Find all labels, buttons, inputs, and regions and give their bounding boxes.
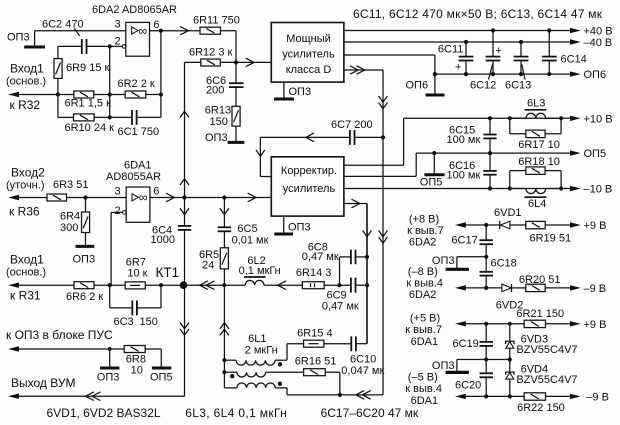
svg-text:BZV55C4V7: BZV55C4V7 — [516, 344, 577, 356]
wire corrector out to +10 rail — [344, 116, 571, 165]
resistor 6R18 10 — [510, 156, 561, 189]
svg-text:к выв.7: к выв.7 — [407, 225, 444, 237]
node D — [159, 31, 163, 118]
resistor 6R10 24k — [58, 114, 132, 134]
terminal ОП6 — [570, 69, 606, 81]
ground ОП3 under power amp — [274, 82, 311, 99]
svg-text:–9 В: –9 В — [586, 391, 609, 403]
svg-text:ОП3: ОП3 — [432, 255, 455, 267]
wire power amp feedback out — [344, 66, 388, 395]
resistor 6R15 4 — [297, 328, 351, 348]
zener 6VD4 BZV55C4V7 — [506, 360, 578, 399]
ground ОП5 right of 6R8 — [150, 368, 173, 384]
svg-text:6R19 51: 6R19 51 — [530, 233, 572, 245]
wire 6DA1 output — [150, 193, 271, 202]
svg-text:ОП3: ОП3 — [7, 32, 30, 44]
svg-text:–9 В: –9 В — [584, 283, 607, 295]
node input1 main — [6, 253, 46, 279]
pin 6 — [153, 19, 159, 31]
wire 6L1 top winding to 6R15 — [287, 344, 304, 361]
svg-text:6L1: 6L1 — [248, 333, 266, 345]
ground ОП3 left of 6R8 — [97, 368, 120, 384]
svg-text:Мощный: Мощный — [286, 33, 331, 45]
svg-text:1000: 1000 — [151, 234, 175, 246]
svg-text:6: 6 — [153, 186, 159, 198]
diode 6VD2 — [484, 284, 526, 312]
caption 6C11 6C12 470mk — [353, 7, 603, 21]
diode 6VD1 — [484, 207, 526, 229]
terminal -10V — [570, 184, 612, 196]
svg-text:6R11 750: 6R11 750 — [193, 15, 240, 27]
wire output 6DA2 — [150, 26, 201, 35]
ground ОП3 under corrector — [274, 216, 310, 234]
svg-text:6R3 51: 6R3 51 — [53, 179, 88, 191]
svg-text:6C2 470: 6C2 470 — [42, 19, 84, 31]
node C — [108, 44, 112, 117]
resistor 6R17 10 — [510, 118, 561, 151]
svg-text:6R6 2 к: 6R6 2 к — [66, 291, 103, 303]
inductor 6L3 — [510, 98, 561, 119]
terminal +40V — [570, 26, 613, 38]
node +8V terminal — [407, 214, 500, 249]
svg-text:(основ.): (основ.) — [6, 76, 46, 88]
resistor 6R12 3k — [185, 47, 272, 67]
capacitor 6C9 0.47mk — [322, 278, 369, 313]
svg-text:∞: ∞ — [138, 24, 147, 38]
svg-text:+9 В: +9 В — [584, 319, 607, 331]
label 6DA2 AD8065AR — [92, 4, 177, 16]
zener 6VD3 BZV55C4V7 — [506, 322, 578, 362]
svg-text:6VD1, 6VD2 BAS32L: 6VD1, 6VD2 BAS32L — [47, 406, 161, 420]
wire corrector to ОП5 rail — [344, 151, 571, 176]
svg-text:6DA2 AD8065AR: 6DA2 AD8065AR — [92, 4, 177, 16]
wire pin3 line — [35, 30, 126, 32]
capacitor 6C11 — [438, 42, 474, 74]
resistor 6R1 1.5k — [65, 91, 126, 110]
wire 6C7 to corrector input — [256, 137, 271, 176]
svg-text:6C19: 6C19 — [453, 338, 479, 350]
svg-text:BZV55C4V7: BZV55C4V7 — [516, 374, 577, 386]
svg-text:6R4: 6R4 — [60, 211, 80, 223]
terminal к R36 — [8, 195, 47, 219]
svg-text:6C1 750: 6C1 750 — [118, 126, 160, 138]
terminal -9V upper — [570, 283, 606, 295]
svg-text:КТ1: КТ1 — [156, 265, 180, 280]
resistor 6R6 2k — [66, 282, 125, 303]
resistor 6R5 24 — [199, 231, 228, 285]
terminal Выход ВУМ — [8, 392, 184, 401]
resistor 6R7 10k — [125, 257, 184, 289]
svg-text:6C20: 6C20 — [455, 380, 481, 392]
capacitor 6C15 100mk — [447, 118, 497, 153]
node к ОП3 в блоке ПУС — [6, 328, 113, 342]
svg-text:6: 6 — [153, 19, 159, 31]
svg-text:ОП3: ОП3 — [289, 86, 312, 98]
svg-text:ОП3: ОП3 — [73, 254, 96, 266]
svg-text:6С11, 6С12 470 мк×50 В;: 6С11, 6С12 470 мк×50 В; 6С13, 6С14 47 мк — [353, 7, 603, 21]
resistor 6R4 300 — [60, 198, 90, 247]
terminal к R31 — [8, 283, 74, 303]
svg-text:6R17 10: 6R17 10 — [518, 139, 560, 151]
svg-text:0,47 мк: 0,47 мк — [302, 251, 339, 263]
wire KT1 down to output line — [180, 285, 189, 396]
svg-text:к R31: к R31 — [10, 289, 41, 303]
svg-text:6С17–6С20 47 мк: 6С17–6С20 47 мк — [321, 406, 419, 420]
capacitor 6C10 0.047mk — [341, 336, 384, 377]
svg-text:–40 В: –40 В — [584, 37, 613, 49]
wire feedback vertical — [180, 62, 189, 197]
resistor 6R9 15k — [54, 46, 110, 94]
svg-text:усилитель: усилитель — [283, 183, 336, 195]
svg-text:Вход2: Вход2 — [11, 166, 45, 180]
wire ОП6 rail — [344, 55, 571, 95]
wire bottom return line — [287, 391, 383, 400]
svg-text:+10 В: +10 В — [584, 113, 613, 125]
svg-text:6C13: 6C13 — [505, 80, 531, 92]
node input1 — [6, 62, 46, 88]
resistor 6R11 750 — [193, 15, 240, 63]
terminal к R32 — [8, 92, 74, 112]
svg-text:–10 В: –10 В — [584, 184, 613, 196]
svg-text:к выв.4: к выв.4 — [405, 383, 442, 395]
svg-text:150: 150 — [210, 116, 228, 128]
svg-text:6VD1: 6VD1 — [494, 207, 522, 219]
svg-text:2: 2 — [115, 35, 121, 47]
svg-text:3: 3 — [115, 186, 121, 198]
resistor 6R22 150 — [517, 393, 570, 414]
svg-text:6DA1: 6DA1 — [411, 336, 439, 348]
resistor 6R19 51 — [526, 221, 571, 244]
wire KT1 vertical to 6L1 — [220, 285, 229, 388]
svg-text:Вход1: Вход1 — [10, 62, 44, 76]
terminal -40V — [570, 37, 612, 49]
wire +40V rail — [344, 28, 571, 32]
ground ОП3 mid supply — [432, 255, 488, 270]
node -8V terminal — [406, 266, 502, 301]
ground ОП3 top-left — [24, 31, 45, 47]
svg-text:6R12 3 к: 6R12 3 к — [189, 47, 233, 59]
svg-text:0,1 мкГн: 0,1 мкГн — [239, 265, 281, 277]
wire pin2 of 6DA1 to KT1 node — [111, 212, 123, 285]
svg-text:класса D: класса D — [286, 64, 332, 76]
svg-text:(основ.): (основ.) — [6, 267, 46, 279]
capacitor 6C12 — [470, 31, 502, 92]
svg-text:к ОП3 в блоке ПУС: к ОП3 в блоке ПУС — [6, 328, 113, 342]
node +5V terminal — [405, 313, 524, 349]
pin 2 — [115, 35, 121, 47]
svg-text:3: 3 — [115, 19, 121, 31]
ground ОП3 under 6R13 — [205, 132, 244, 144]
pin 6 of 6DA1 — [153, 186, 159, 198]
capacitor 6C20 — [455, 373, 493, 396]
svg-text:6DA1: 6DA1 — [124, 160, 152, 172]
caption 6C17-6C20 47mk — [321, 406, 419, 420]
svg-text:+40 В: +40 В — [584, 26, 613, 38]
svg-text:6DA2: 6DA2 — [409, 236, 437, 248]
capacitor 6C5 0.01mk — [218, 198, 269, 247]
op-amp 6DA2 — [122, 22, 149, 56]
terminal +10V — [570, 113, 613, 125]
wire corrector to -10 rail — [344, 186, 571, 190]
svg-text:6C18: 6C18 — [491, 258, 517, 270]
resistor 6R13 150 — [205, 87, 240, 141]
capacitor 6C19 — [453, 322, 494, 374]
node -5V terminal — [405, 371, 524, 407]
svg-text:ОП3: ОП3 — [432, 360, 455, 372]
resistor 6R8 10 — [124, 346, 161, 377]
node 6R6/6R7/pin2 — [108, 283, 112, 287]
svg-text:6C10: 6C10 — [350, 354, 376, 366]
svg-text:6R16 51: 6R16 51 — [295, 356, 337, 368]
svg-text:6C9: 6C9 — [327, 289, 347, 301]
pin 3 of 6DA1 — [115, 186, 121, 198]
svg-text:усилитель: усилитель — [282, 49, 335, 61]
svg-text:к R36: к R36 — [9, 205, 40, 219]
svg-text:6R22 150: 6R22 150 — [517, 402, 565, 414]
node ОП3 (top-left) — [7, 32, 30, 44]
block corrector amplifier — [271, 157, 344, 216]
node Выход ВУМ — [11, 376, 75, 390]
svg-text:к R32: к R32 — [10, 98, 41, 112]
svg-text:ОП5: ОП5 — [420, 177, 443, 189]
svg-text:6C3 150: 6C3 150 — [114, 316, 158, 328]
capacitor 6C18 — [480, 258, 517, 288]
svg-text:6R18 10: 6R18 10 — [518, 156, 560, 168]
svg-text:ОП6: ОП6 — [406, 80, 429, 92]
capacitor 6C14 — [542, 31, 587, 75]
capacitor 6C4 1000 — [151, 198, 192, 286]
node KT1 — [156, 265, 188, 289]
svg-text:(уточн.): (уточн.) — [6, 180, 44, 192]
svg-text:к выв.7: к выв.7 — [405, 324, 442, 336]
svg-text:6R14 3: 6R14 3 — [296, 267, 331, 279]
svg-text:100 мк: 100 мк — [447, 134, 481, 146]
svg-text:AD8055AR: AD8055AR — [106, 171, 161, 183]
inductor 6L2 — [239, 255, 303, 290]
resistor 6R2 2k — [118, 78, 161, 98]
svg-text:6C7 200: 6C7 200 — [331, 119, 373, 131]
svg-text:2: 2 — [115, 205, 121, 217]
svg-text:к выв.4: к выв.4 — [406, 277, 443, 289]
capacitor 6C17 — [451, 225, 493, 272]
wire corrector out stub4 to vertical — [344, 199, 372, 344]
caption 6VD1 6VD2 BAS32L — [47, 406, 161, 420]
svg-text:6C14: 6C14 — [561, 54, 587, 66]
resistor 6R14 3 — [296, 267, 351, 289]
terminal ОП5 — [570, 148, 606, 160]
svg-text:6L3, 6L4 0,1 мкГн: 6L3, 6L4 0,1 мкГн — [185, 406, 287, 420]
inductor 6L4 — [510, 189, 561, 211]
svg-text:0,047 мк: 0,047 мк — [341, 365, 384, 377]
capacitor 6C6 200 — [206, 62, 244, 96]
svg-text:ОП3: ОП3 — [205, 132, 228, 144]
capacitor 6C7 200 — [260, 119, 385, 145]
svg-text:0,47 мк: 0,47 мк — [322, 301, 359, 313]
svg-text:10 к: 10 к — [127, 268, 147, 280]
svg-text:Выход ВУМ: Выход ВУМ — [11, 376, 75, 390]
resistor 6R3 51 — [47, 179, 126, 201]
node 6R11/6R12 junction — [234, 58, 254, 67]
capacitor 6C8 0.47mk — [302, 241, 369, 264]
svg-text:6R21 150: 6R21 150 — [516, 308, 564, 320]
label 6DA1 AD8055AR — [106, 160, 161, 184]
svg-text:+: + — [455, 61, 461, 73]
svg-text:6R15 4: 6R15 4 — [297, 328, 332, 340]
svg-text:ОП6: ОП6 — [584, 69, 607, 81]
svg-text:ОП3: ОП3 — [97, 372, 120, 384]
svg-text:+9 В: +9 В — [584, 220, 607, 232]
svg-text:Корректир.: Корректир. — [281, 165, 337, 177]
svg-text:6C5: 6C5 — [237, 223, 257, 235]
svg-text:2 мкГн: 2 мкГн — [245, 345, 278, 357]
block power amplifier class D — [271, 23, 344, 83]
ground ОП3 under 6R4 — [73, 246, 96, 265]
svg-text:∞: ∞ — [139, 191, 148, 205]
svg-text:6DA2: 6DA2 — [409, 289, 437, 301]
terminal +9V upper — [570, 220, 606, 232]
ground ОП6 — [406, 80, 445, 96]
node 6C8/6C9 left — [337, 257, 351, 287]
svg-text:6R10 24 к: 6R10 24 к — [65, 122, 115, 134]
svg-text:(+5 В): (+5 В) — [410, 313, 440, 325]
terminal -9V lower — [570, 391, 609, 403]
inductor 6L1 2mkGn — [222, 333, 303, 395]
svg-text:6C17: 6C17 — [451, 235, 477, 247]
resistor 6R16 51 — [295, 356, 340, 395]
svg-text:+: + — [496, 45, 502, 57]
svg-text:6R13: 6R13 — [205, 105, 231, 117]
ground ОП5 — [420, 153, 445, 188]
capacitor C6C2 value 470 — [42, 19, 122, 55]
capacitor 6C1 750 — [108, 110, 161, 138]
ground ОП3 lower supply — [432, 357, 510, 372]
svg-text:(–5 В): (–5 В) — [408, 371, 438, 383]
pin 3 — [115, 19, 121, 31]
node 6R8 left — [108, 347, 112, 368]
capacitor 6C16 100mk — [447, 153, 497, 188]
svg-text:200: 200 — [206, 85, 224, 97]
svg-text:300: 300 — [60, 222, 78, 234]
svg-text:0,01 мк: 0,01 мк — [232, 235, 269, 247]
capacitor 6C3 150 — [110, 283, 163, 328]
svg-text:6R9 15 к: 6R9 15 к — [66, 62, 110, 74]
terminal ПУС line — [8, 346, 124, 351]
svg-text:ОП5: ОП5 — [584, 148, 607, 160]
svg-text:6C12: 6C12 — [470, 80, 496, 92]
svg-text:6R1 1,5 к: 6R1 1,5 к — [65, 98, 112, 110]
svg-text:ОП5: ОП5 — [150, 372, 173, 384]
svg-text:10: 10 — [131, 365, 143, 377]
svg-text:6C11: 6C11 — [438, 44, 463, 56]
svg-text:6L4: 6L4 — [528, 198, 546, 210]
svg-text:6L3: 6L3 — [527, 98, 545, 110]
svg-text:100 мк: 100 мк — [447, 170, 481, 182]
op-amp 6DA1 — [123, 187, 150, 222]
svg-text:Вход1: Вход1 — [10, 253, 44, 267]
terminal +9V lower — [570, 319, 606, 331]
pin 2 of 6DA1 — [115, 205, 121, 217]
node input2 — [6, 166, 45, 192]
wire KT1 line with left arrows — [185, 281, 246, 290]
node 6R3/6R4 — [83, 195, 87, 199]
resistor 6R20 51 — [519, 274, 571, 292]
svg-text:ОП3: ОП3 — [288, 222, 311, 234]
wire -40V rail — [344, 40, 571, 44]
svg-text:(+8 В): (+8 В) — [409, 214, 439, 226]
caption 6L3 6L4 0.1mkGn — [185, 406, 287, 420]
svg-text:24: 24 — [202, 260, 214, 272]
svg-text:6R2 2 к: 6R2 2 к — [118, 78, 155, 90]
node B — [56, 92, 60, 117]
resistor 6R21 150 — [516, 308, 570, 328]
capacitor 6C13 — [505, 42, 531, 92]
